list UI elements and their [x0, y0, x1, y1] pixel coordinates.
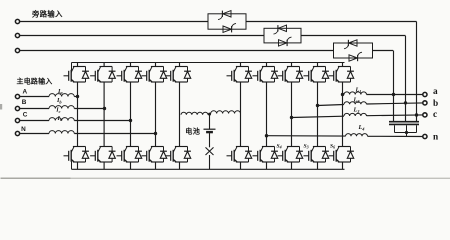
- svg-text:B: B: [22, 99, 27, 106]
- svg-text:A: A: [22, 88, 27, 95]
- svg-text:b: b: [433, 99, 438, 109]
- svg-text:C: C: [23, 112, 28, 119]
- svg-text:c: c: [433, 110, 437, 120]
- svg-text:a: a: [433, 87, 438, 97]
- svg-text:S3: S3: [304, 144, 309, 150]
- svg-text:旁路输入: 旁路输入: [31, 10, 63, 19]
- svg-text:S6: S6: [330, 144, 335, 150]
- svg-text:S4: S4: [277, 144, 282, 150]
- svg-text:电池: 电池: [185, 126, 200, 135]
- svg-text:主电路输入: 主电路输入: [17, 76, 53, 85]
- svg-text:N: N: [21, 126, 26, 133]
- svg-text:n: n: [433, 132, 439, 142]
